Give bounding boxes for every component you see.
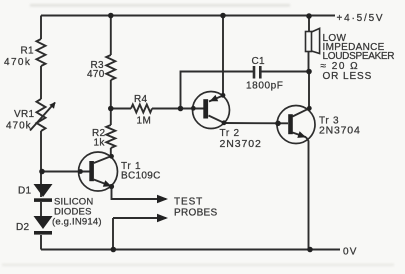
svg-text:D1: D1 <box>18 186 32 197</box>
svg-text:BC109C: BC109C <box>121 171 161 182</box>
svg-text:1800pF: 1800pF <box>246 81 284 92</box>
svg-text:1k: 1k <box>94 138 106 149</box>
svg-text:VR1: VR1 <box>14 109 34 120</box>
svg-text:PROBES: PROBES <box>174 208 218 219</box>
svg-text:470k: 470k <box>6 121 32 132</box>
svg-text:2N3704: 2N3704 <box>319 125 361 137</box>
svg-text:TEST: TEST <box>174 197 203 208</box>
svg-text:C1: C1 <box>252 56 266 67</box>
svg-text:1M: 1M <box>137 116 152 127</box>
svg-text:+4·5/5V: +4·5/5V <box>337 13 385 24</box>
svg-text:OR LESS: OR LESS <box>323 71 373 82</box>
svg-text:2N3702: 2N3702 <box>220 138 262 150</box>
svg-text:R1: R1 <box>21 46 35 57</box>
svg-text:(e.g.IN914): (e.g.IN914) <box>52 216 102 227</box>
svg-text:D2: D2 <box>16 222 30 233</box>
svg-text:R4: R4 <box>134 94 148 105</box>
svg-text:470k: 470k <box>4 57 31 68</box>
svg-text:0V: 0V <box>343 247 358 258</box>
svg-text:470: 470 <box>87 69 105 80</box>
